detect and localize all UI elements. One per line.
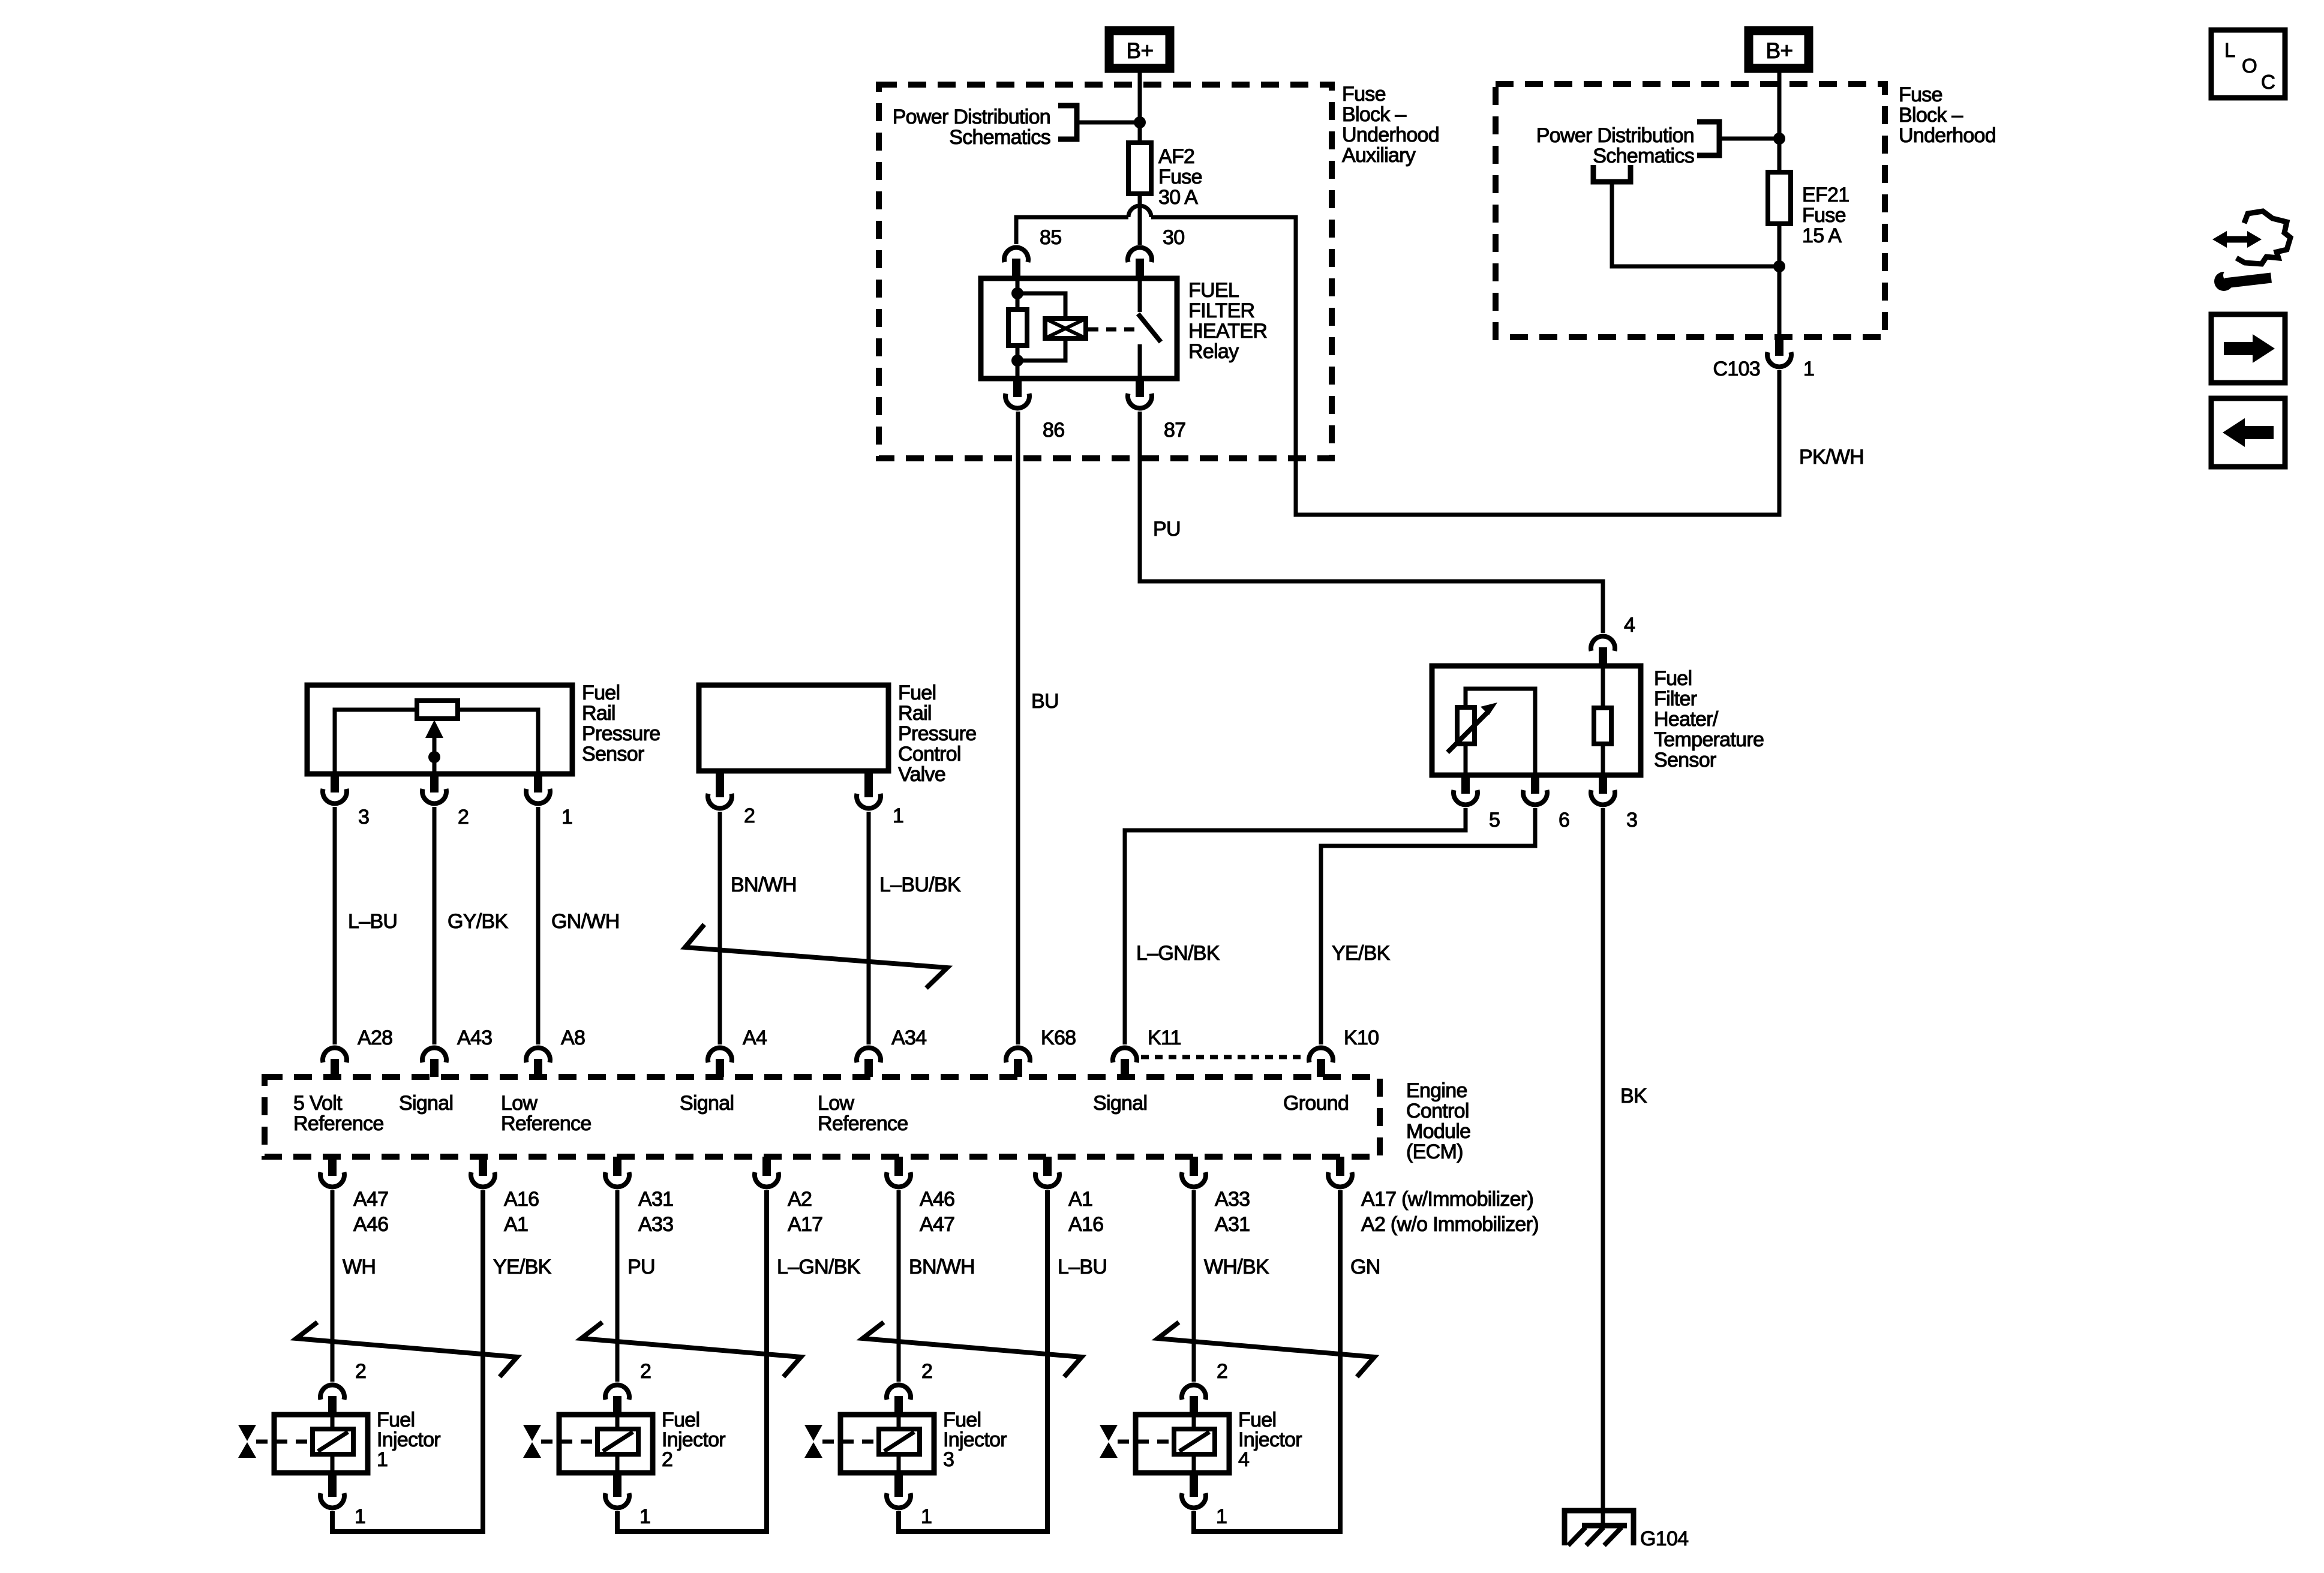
svg-text:Fuse: Fuse xyxy=(1158,166,1202,188)
fuse EF21 15A xyxy=(1768,172,1791,224)
svg-text:1: 1 xyxy=(562,806,572,828)
connector sensor pin 3 xyxy=(323,774,347,803)
svg-text:4: 4 xyxy=(1624,614,1635,637)
wire bracket to B+ feed xyxy=(1079,121,1140,125)
fuel injector 1 box xyxy=(274,1415,368,1473)
svg-text:K10: K10 xyxy=(1344,1026,1379,1049)
svg-text:5: 5 xyxy=(1489,809,1500,831)
svg-text:Control: Control xyxy=(898,743,961,766)
svg-text:Fuse: Fuse xyxy=(1899,83,1942,106)
label EF21 Fuse 15 A xyxy=(1802,184,1849,247)
svg-text:Underhood: Underhood xyxy=(1899,124,1996,147)
fuel rail pressure control valve box xyxy=(699,685,888,771)
svg-text:Signal: Signal xyxy=(1093,1092,1147,1115)
wire BK heater 3 to ground G104 xyxy=(1601,808,1605,1526)
connector injector 4 pin 2 xyxy=(1182,1385,1206,1415)
svg-text:30: 30 xyxy=(1163,226,1184,249)
label A2 A17 xyxy=(788,1188,822,1236)
svg-text:A17 (w/Immobilizer): A17 (w/Immobilizer) xyxy=(1361,1188,1533,1211)
svg-text:Rail: Rail xyxy=(898,702,932,725)
svg-text:A47: A47 xyxy=(353,1188,388,1211)
label Fuel Injector 4 xyxy=(1238,1409,1302,1471)
injector 2 coil xyxy=(597,1415,638,1473)
connector ECM pin A33/A31 (bottom) xyxy=(1182,1157,1206,1187)
svg-text:1: 1 xyxy=(1216,1505,1227,1528)
label sensor pin 1 xyxy=(562,806,572,828)
svg-text:Fuel: Fuel xyxy=(1654,667,1692,690)
label valve pin 2 xyxy=(744,804,755,827)
battery feed B+ (auxiliary fuse block) xyxy=(1105,26,1174,73)
wire hop over fuse wire xyxy=(1128,206,1151,217)
svg-text:FUEL: FUEL xyxy=(1188,279,1239,302)
wire B+ to fuse block auxiliary xyxy=(1138,73,1142,87)
connector relay pin 86 xyxy=(1005,379,1029,408)
label GN/WH xyxy=(551,910,620,933)
svg-text:Fuel: Fuel xyxy=(582,682,620,704)
connector relay pin 85 xyxy=(1004,248,1028,278)
relay switch common wire xyxy=(1138,278,1142,312)
svg-text:Fuse: Fuse xyxy=(1342,83,1386,106)
svg-text:1: 1 xyxy=(355,1505,365,1528)
svg-text:YE/BK: YE/BK xyxy=(1332,942,1391,965)
svg-text:2: 2 xyxy=(921,1360,932,1383)
label wire colour PU xyxy=(627,1256,655,1278)
label 87 xyxy=(1164,419,1185,442)
label L-BU xyxy=(348,910,397,933)
injector 4 valve symbol xyxy=(1100,1425,1171,1458)
svg-text:PU: PU xyxy=(1153,518,1181,541)
relay actuation dashed link xyxy=(1088,328,1139,332)
svg-text:A2: A2 xyxy=(788,1188,812,1211)
svg-text:Underhood: Underhood xyxy=(1342,124,1439,146)
label injector 1 pin 1 xyxy=(355,1505,365,1528)
label C103 xyxy=(1713,358,1760,380)
svg-text:1: 1 xyxy=(921,1505,932,1528)
thermistor bottom lead xyxy=(1464,744,1468,775)
svg-text:Temperature: Temperature xyxy=(1654,728,1764,751)
label BK xyxy=(1620,1085,1647,1107)
connector ECM pin A4 xyxy=(708,1048,732,1077)
svg-text:1: 1 xyxy=(1803,358,1814,380)
label wire colour BN/WH xyxy=(909,1256,975,1278)
label A46 A47 xyxy=(920,1188,954,1236)
ground G104 xyxy=(1565,1511,1634,1545)
label L-BU/BK xyxy=(879,873,961,896)
injector 3 coil xyxy=(879,1415,920,1473)
label Signal (A43) xyxy=(399,1092,453,1115)
svg-text:HEATER: HEATER xyxy=(1188,320,1267,343)
fuel injector 2 box xyxy=(559,1415,653,1473)
icon vehicle diagnostics xyxy=(2212,211,2290,291)
bracket power distribution lower (underhood) xyxy=(1593,165,1631,182)
label injector 4 pin 1 xyxy=(1216,1505,1227,1528)
relay coil bottom wire xyxy=(1016,346,1020,379)
connector heater pin 6 xyxy=(1523,775,1547,804)
wire B+ feed to fuse AF2 xyxy=(1138,85,1142,143)
junction node feed/upper bracket xyxy=(1773,133,1785,145)
connector ECM pin A43 xyxy=(422,1048,446,1077)
fuel filter heater temperature sensor box xyxy=(1432,666,1641,775)
relay switch blade xyxy=(1138,314,1161,342)
connector sensor pin 1 xyxy=(526,774,550,803)
svg-text:3: 3 xyxy=(1626,809,1637,831)
svg-text:GN/WH: GN/WH xyxy=(551,910,620,933)
svg-text:1: 1 xyxy=(377,1448,388,1471)
relay suppressor branch bottom xyxy=(1017,338,1065,361)
svg-text:2: 2 xyxy=(744,804,755,827)
svg-text:Valve: Valve xyxy=(898,763,945,786)
svg-text:Power Distribution: Power Distribution xyxy=(893,106,1050,128)
svg-text:GN: GN xyxy=(1350,1256,1380,1278)
svg-text:B+: B+ xyxy=(1127,38,1154,63)
label L-GN/BK xyxy=(1136,942,1220,965)
svg-text:15 A: 15 A xyxy=(1802,224,1842,247)
label A16 A1 xyxy=(504,1188,539,1236)
label heater pin 3 xyxy=(1626,809,1637,831)
wire 85 branch riser xyxy=(1016,217,1128,244)
sensor thermistor sub-circuit xyxy=(1466,689,1535,775)
junction node B+/power distribution xyxy=(1134,116,1146,128)
label 5 Volt Reference xyxy=(293,1092,384,1135)
wire GY/BK sensor 2 to ECM A43 xyxy=(433,807,437,1044)
icon arrow next xyxy=(2211,314,2285,383)
svg-text:A31: A31 xyxy=(1215,1213,1250,1236)
svg-text:A34: A34 xyxy=(891,1026,926,1049)
svg-text:L–BU: L–BU xyxy=(1058,1256,1107,1278)
svg-text:Control: Control xyxy=(1406,1100,1469,1122)
label injector 1 pin 2 xyxy=(355,1360,366,1383)
svg-text:PK/WH: PK/WH xyxy=(1799,446,1864,469)
icon arrow previous xyxy=(2211,398,2285,467)
svg-text:30 A: 30 A xyxy=(1158,186,1198,209)
wire fuse EF21 to C103 xyxy=(1777,224,1782,337)
svg-text:Signal: Signal xyxy=(399,1092,453,1115)
junction node wiper xyxy=(428,751,440,763)
svg-text:K68: K68 xyxy=(1041,1026,1076,1049)
label wire colour WH xyxy=(343,1256,376,1278)
label A47 A46 xyxy=(353,1188,388,1236)
connector ECM pin A28 xyxy=(323,1048,347,1077)
svg-text:Auxiliary: Auxiliary xyxy=(1342,144,1416,167)
svg-text:Fuel: Fuel xyxy=(898,682,936,704)
wire BU relay 86 to ECM K68 xyxy=(1016,412,1020,1044)
svg-text:87: 87 xyxy=(1164,419,1185,442)
label Fuel Filter Heater Temperature Sensor xyxy=(1654,667,1764,772)
svg-text:A17: A17 xyxy=(788,1213,822,1236)
sensor wiper wire xyxy=(433,740,437,774)
svg-text:BN/WH: BN/WH xyxy=(909,1256,975,1278)
relay suppressor branch top xyxy=(1017,293,1065,319)
svg-text:2: 2 xyxy=(458,806,469,828)
svg-text:A46: A46 xyxy=(353,1213,388,1236)
junction node coil top xyxy=(1011,287,1023,299)
connector valve pin 2 xyxy=(708,771,732,808)
label GY/BK xyxy=(448,910,508,933)
svg-text:Pressure: Pressure xyxy=(898,722,976,745)
svg-text:G104: G104 xyxy=(1640,1527,1688,1550)
label wire colour L–GN/BK xyxy=(777,1256,861,1278)
label sensor pin 2 xyxy=(458,806,469,828)
label injector 3 pin 1 xyxy=(921,1505,932,1528)
connector injector 3 pin 2 xyxy=(887,1385,911,1415)
wire return fuel injector 1 pin 1 to ECM xyxy=(332,1190,483,1532)
wire upper bracket to feed xyxy=(1722,137,1779,141)
label A33 A31 xyxy=(1215,1188,1250,1236)
svg-text:Block –: Block – xyxy=(1342,103,1406,126)
wire ECM to fuel injector 3 pin 2 xyxy=(897,1190,901,1382)
svg-text:GY/BK: GY/BK xyxy=(448,910,508,933)
connector ECM pin K10 xyxy=(1309,1048,1333,1077)
relay coil feed wire xyxy=(1016,278,1020,310)
wire L-BU/BK valve 1 to ECM A34 xyxy=(867,812,871,1044)
wire L-BU sensor 3 to ECM A28 xyxy=(333,807,337,1044)
svg-text:3: 3 xyxy=(943,1448,954,1471)
label heater pin 6 xyxy=(1559,809,1569,831)
connector ECM pin K11 xyxy=(1113,1048,1137,1077)
bracket power distribution (auxiliary) xyxy=(1058,106,1077,139)
fuel rail pressure sensor box xyxy=(307,685,572,774)
wire YE/BK heater 6 to ECM K10 xyxy=(1321,808,1535,1044)
label A28 xyxy=(358,1026,392,1049)
connector injector 1 pin 2 xyxy=(320,1385,344,1415)
fuse block underhood auxiliary (dashed box) xyxy=(879,85,1332,458)
sensor wiper arrow xyxy=(425,720,443,757)
label A31 A33 xyxy=(638,1188,673,1236)
svg-text:A43: A43 xyxy=(457,1026,492,1049)
svg-text:FILTER: FILTER xyxy=(1188,299,1254,322)
connector ECM pin A47/A46 (bottom) xyxy=(320,1157,344,1187)
wire return fuel injector 3 pin 1 to ECM xyxy=(899,1190,1047,1532)
svg-text:86: 86 xyxy=(1043,419,1064,442)
svg-text:Pressure: Pressure xyxy=(582,722,660,745)
svg-text:Engine: Engine xyxy=(1406,1079,1467,1102)
sensor potentiometer track xyxy=(417,701,458,719)
svg-text:1: 1 xyxy=(639,1505,650,1528)
label A4 xyxy=(743,1026,767,1049)
label injector 2 pin 1 xyxy=(639,1505,650,1528)
svg-text:EF21: EF21 xyxy=(1802,184,1849,206)
label wire colour WH/BK xyxy=(1204,1256,1269,1278)
svg-text:Heater/: Heater/ xyxy=(1654,708,1719,731)
label Power Distribution Schematics (auxiliary) xyxy=(893,106,1050,149)
label Fuel Injector 1 xyxy=(377,1409,440,1471)
svg-text:2: 2 xyxy=(662,1448,672,1471)
wire return fuel injector 4 pin 1 to ECM xyxy=(1194,1190,1340,1532)
connector ECM pin A31/A33 (bottom) xyxy=(605,1157,629,1187)
svg-text:A47: A47 xyxy=(920,1213,954,1236)
crossing harness valve wires xyxy=(685,924,947,988)
wire fuse AF2 to relay pin 30 xyxy=(1138,194,1142,245)
label YE/BK xyxy=(1332,942,1391,965)
svg-text:Block –: Block – xyxy=(1899,104,1963,127)
label Fuel Injector 2 xyxy=(662,1409,725,1471)
fuse block underhood (dashed box) xyxy=(1496,84,1885,337)
connector C103 pin 1 xyxy=(1767,337,1791,367)
heater resistor element xyxy=(1594,708,1611,744)
svg-text:A28: A28 xyxy=(358,1026,392,1049)
connector injector 2 pin 2 xyxy=(605,1385,629,1415)
connector injector 3 pin 1 xyxy=(887,1473,911,1508)
junction node feed/lower bracket xyxy=(1773,260,1785,272)
svg-text:3: 3 xyxy=(358,806,369,828)
label valve pin 1 xyxy=(893,804,903,827)
svg-text:BU: BU xyxy=(1031,690,1059,713)
svg-text:Sensor: Sensor xyxy=(582,743,644,766)
svg-text:A4: A4 xyxy=(743,1026,767,1049)
wire ECM to fuel injector 2 pin 2 xyxy=(615,1190,620,1382)
label injector 4 pin 2 xyxy=(1217,1360,1227,1383)
sensor pot left lead xyxy=(335,710,417,774)
wire BN/WH valve 2 to ECM A4 xyxy=(718,812,722,1044)
svg-text:A8: A8 xyxy=(561,1026,585,1049)
wire B+ feed to fuse EF21 xyxy=(1777,84,1782,172)
svg-text:C103: C103 xyxy=(1713,358,1760,380)
svg-text:A16: A16 xyxy=(1068,1213,1103,1236)
fuse AF2 30A xyxy=(1128,143,1151,194)
svg-text:WH/BK: WH/BK xyxy=(1204,1256,1269,1278)
svg-text:Power Distribution: Power Distribution xyxy=(1536,124,1694,147)
svg-text:Sensor: Sensor xyxy=(1654,749,1716,772)
label wire colour GN xyxy=(1350,1256,1380,1278)
fuel injector 4 box xyxy=(1136,1415,1229,1473)
crossing harness injector 2 wires xyxy=(581,1322,801,1377)
connector ECM pin A2/A17 (bottom) xyxy=(755,1157,779,1187)
svg-text:Reference: Reference xyxy=(818,1112,908,1135)
svg-text:PU: PU xyxy=(627,1256,655,1278)
svg-text:5 Volt: 5 Volt xyxy=(293,1092,343,1115)
label heater pin 4 xyxy=(1624,614,1635,637)
label A43 xyxy=(457,1026,492,1049)
svg-text:B+: B+ xyxy=(1766,38,1793,63)
svg-text:AF2: AF2 xyxy=(1158,145,1194,168)
label injector 2 pin 2 xyxy=(640,1360,651,1383)
connector injector 2 pin 1 xyxy=(605,1473,629,1508)
label Signal (A4) xyxy=(680,1092,734,1115)
connector injector 1 pin 1 xyxy=(320,1473,344,1508)
svg-text:Low: Low xyxy=(501,1092,538,1115)
label Fuel Injector 3 xyxy=(943,1409,1007,1471)
fuel injector 3 box xyxy=(840,1415,934,1473)
label sensor pin 3 xyxy=(358,806,369,828)
dotted link K11-K10 xyxy=(1141,1055,1305,1059)
label Engine Control Module ECM xyxy=(1406,1079,1470,1163)
label K10 xyxy=(1344,1026,1379,1049)
svg-text:Reference: Reference xyxy=(501,1112,591,1135)
connector ECM pin A1/A16 (bottom) xyxy=(1035,1157,1059,1187)
connector ECM pin A8 xyxy=(526,1048,550,1077)
svg-text:A31: A31 xyxy=(638,1188,673,1211)
label wire colour L–BU xyxy=(1058,1256,1107,1278)
injector 1 valve symbol xyxy=(238,1425,310,1458)
injector 4 coil xyxy=(1174,1415,1215,1473)
label G104 xyxy=(1640,1527,1688,1550)
svg-text:WH: WH xyxy=(343,1256,376,1278)
svg-text:A2 (w/o Immobilizer): A2 (w/o Immobilizer) xyxy=(1361,1213,1539,1236)
label heater pin 5 xyxy=(1489,809,1500,831)
svg-text:L–BU/BK: L–BU/BK xyxy=(879,873,961,896)
label K11 xyxy=(1148,1026,1181,1049)
label Fuse Block Underhood xyxy=(1899,83,1996,147)
svg-text:BK: BK xyxy=(1620,1085,1647,1107)
svg-text:A46: A46 xyxy=(920,1188,954,1211)
svg-text:A1: A1 xyxy=(1068,1188,1092,1211)
wire lower bracket to feed xyxy=(1612,182,1779,266)
svg-text:Filter: Filter xyxy=(1654,688,1697,710)
svg-text:Schematics: Schematics xyxy=(1593,145,1694,167)
label wire colour YE/BK xyxy=(493,1256,552,1278)
svg-text:4: 4 xyxy=(1238,1448,1249,1471)
connector sensor pin 2 xyxy=(422,774,446,803)
svg-text:Schematics: Schematics xyxy=(949,126,1050,149)
heater element feed wire xyxy=(1601,666,1605,708)
crossing harness injector 1 wires xyxy=(296,1322,517,1377)
wire return fuel injector 2 pin 1 to ECM xyxy=(617,1190,767,1532)
label K68 xyxy=(1041,1026,1076,1049)
label PK/WH xyxy=(1799,446,1864,469)
label 86 xyxy=(1043,419,1064,442)
label Low Reference (A34) xyxy=(818,1092,908,1135)
connector heater pin 3 xyxy=(1591,775,1615,804)
svg-text:A16: A16 xyxy=(504,1188,539,1211)
label A8 xyxy=(561,1026,585,1049)
injector 3 valve symbol xyxy=(804,1425,876,1458)
connector ECM pin K68 xyxy=(1006,1048,1030,1077)
label Low Reference (A8) xyxy=(501,1092,591,1135)
heater resistor bottom lead xyxy=(1601,744,1605,775)
label BU xyxy=(1031,690,1059,713)
connector ECM pin A34 xyxy=(857,1048,881,1077)
label Ground (K10) xyxy=(1283,1092,1349,1115)
svg-text:L–BU: L–BU xyxy=(348,910,397,933)
label injector 3 pin 2 xyxy=(921,1360,932,1383)
svg-text:L–GN/BK: L–GN/BK xyxy=(1136,942,1220,965)
connector ECM pin A17/A2 (bottom) xyxy=(1328,1157,1352,1187)
relay switch output wire xyxy=(1138,344,1142,379)
label C103 pin 1 xyxy=(1803,358,1814,380)
wire 30-branch to EF21 feed xyxy=(1151,217,1779,515)
svg-text:BN/WH: BN/WH xyxy=(731,873,797,896)
svg-text:2: 2 xyxy=(640,1360,651,1383)
label Fuel Rail Pressure Sensor xyxy=(582,682,660,766)
svg-text:Fuse: Fuse xyxy=(1802,204,1846,227)
thermistor element xyxy=(1448,703,1497,752)
label Power Distribution Schematics (underhood) xyxy=(1536,124,1694,167)
svg-text:L–GN/BK: L–GN/BK xyxy=(777,1256,861,1278)
injector 1 coil xyxy=(313,1415,353,1473)
connector relay pin 87 xyxy=(1128,379,1152,408)
connector ECM pin A46/A47 (bottom) xyxy=(887,1157,911,1187)
svg-text:Reference: Reference xyxy=(293,1112,384,1135)
connector heater pin 4 xyxy=(1591,637,1615,666)
battery feed B+ (underhood fuse block) xyxy=(1744,26,1813,73)
junction node coil bottom xyxy=(1011,355,1023,367)
label A1 A16 xyxy=(1068,1188,1103,1236)
label A17 (w/Immobilizer) A2 (w/o Immobilizer) xyxy=(1361,1188,1539,1236)
svg-text:Signal: Signal xyxy=(680,1092,734,1115)
label Fuse Block Underhood Auxiliary xyxy=(1342,83,1439,167)
svg-text:L: L xyxy=(2224,39,2235,61)
label Fuel Rail Pressure Control Valve xyxy=(898,682,976,786)
label PU xyxy=(1153,518,1181,541)
svg-text:2: 2 xyxy=(355,1360,366,1383)
label 85 xyxy=(1040,226,1061,249)
svg-text:6: 6 xyxy=(1559,809,1569,831)
svg-text:O: O xyxy=(2242,55,2257,77)
crossing harness injector 4 wires xyxy=(1158,1322,1374,1377)
label A34 xyxy=(891,1026,926,1049)
connector heater pin 5 xyxy=(1454,775,1478,804)
svg-text:C: C xyxy=(2261,71,2275,93)
